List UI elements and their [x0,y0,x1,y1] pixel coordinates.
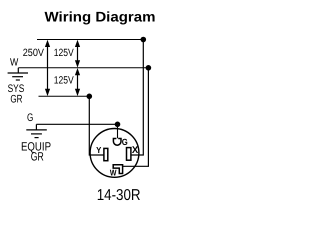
svg-text:125V: 125V [54,47,74,59]
terminal Y slot [104,148,108,160]
wire neutral to W terminal [123,68,149,167]
125V measurement arrow upper [75,40,80,68]
system ground symbol [8,68,28,80]
svg-text:W: W [110,168,117,178]
bus line L1 hot leg 1 [37,39,144,41]
node dot L1 right end [141,37,147,43]
bus line L2 neutral [18,67,148,69]
svg-text:X: X [132,145,139,156]
wire equip ground to receptacle G terminal [36,124,117,138]
svg-text:G: G [122,137,128,147]
svg-text:125V: 125V [54,75,74,87]
svg-text:Y: Y [96,145,101,155]
node dot above G terminal [115,122,121,128]
receptacle body circle [90,129,139,178]
terminal W slot [113,165,122,174]
equipment ground symbol [26,124,47,137]
125V measurement arrow lower [75,68,80,96]
svg-text:W: W [10,57,18,69]
svg-text:GR: GR [31,149,44,163]
svg-text:250V: 250V [23,47,44,59]
svg-text:GR: GR [10,94,22,106]
svg-text:Wiring Diagram: Wiring Diagram [45,9,156,25]
250V measurement arrow [45,40,50,96]
svg-text:G: G [27,112,33,124]
terminal X slot [127,148,131,161]
wire hot2 to Y terminal [89,96,104,155]
wire hot1 to X terminal [131,40,143,156]
node dot L2 right end [146,65,152,71]
svg-text:14-30R: 14-30R [97,187,141,204]
terminal G slot [113,139,121,146]
bus line L3 hot leg 2 [39,95,90,97]
node dot L3 right end [87,94,93,100]
